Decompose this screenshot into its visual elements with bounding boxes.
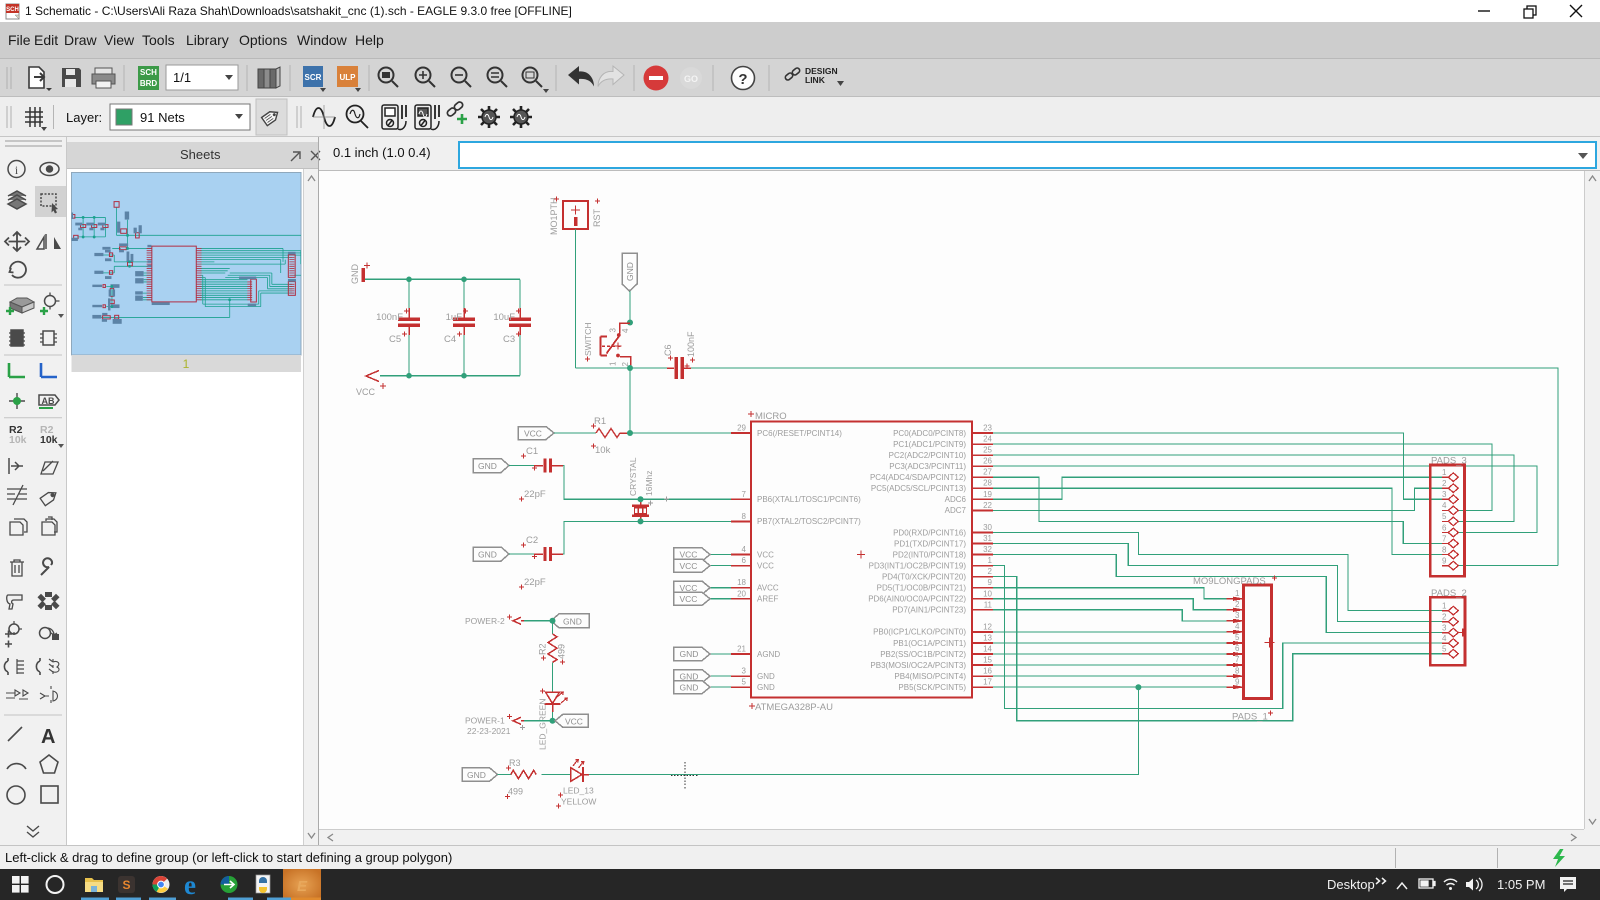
- svg-text:10: 10: [983, 589, 992, 598]
- net N$26 PC3 to PADS_3 pin6: [993, 466, 1537, 532]
- supply symbol VCC (cap bank): [356, 371, 386, 398]
- LED LED_GREEN: [538, 689, 568, 751]
- svg-text:R3: R3: [509, 758, 521, 768]
- net PB1 to M09 pin5: [993, 642, 1227, 644]
- svg-text:1/1: 1/1: [173, 70, 191, 85]
- net label VCC tag (POWER-1): [555, 714, 588, 727]
- PADS_3 pin 7: [1442, 534, 1458, 548]
- svg-text:R1: R1: [594, 416, 606, 427]
- svg-text:PD0(RXD/PCINT16): PD0(RXD/PCINT16): [893, 528, 966, 537]
- svg-text:6: 6: [1442, 523, 1447, 532]
- net label VCC tag (pin row 12): [674, 559, 732, 572]
- svg-text:1: 1: [1442, 601, 1447, 610]
- svg-text:VCC: VCC: [680, 583, 698, 593]
- svg-text:PD7(AIN1/PCINT23): PD7(AIN1/PCINT23): [892, 606, 966, 615]
- wire cap bank top rail: [365, 278, 520, 280]
- PADS_3 pin 9: [1442, 556, 1458, 569]
- svg-text:499: 499: [557, 644, 567, 659]
- net ADC7 to PADS_3 pin2: [993, 488, 1448, 510]
- svg-text:8: 8: [1235, 666, 1240, 675]
- junction crystal bottom: [638, 518, 644, 524]
- svg-text:32: 32: [983, 545, 992, 554]
- svg-text:Desktop: Desktop: [1327, 877, 1375, 892]
- svg-text:PD2(INT0/PCINT18): PD2(INT0/PCINT18): [893, 550, 967, 559]
- net label VCC tag (pin row 14): [674, 581, 732, 594]
- svg-text:C2: C2: [526, 535, 538, 546]
- M09 pin 2: [1227, 600, 1244, 612]
- net PD0 to PADS_2 pin1: [993, 533, 1448, 611]
- wire C2 to pin8: [563, 521, 731, 554]
- PADS_3 pin 4: [1442, 501, 1458, 515]
- connector PADS_2: [1430, 588, 1466, 665]
- net PD5 to M09 pin1: [993, 588, 1227, 599]
- net label GND tag (pin row 23): [674, 681, 732, 694]
- svg-text:8: 8: [742, 512, 747, 521]
- connector M09LONGPADS / PADS_1: [1193, 576, 1277, 723]
- svg-text:PB6(XTAL1/TOSC1/PCINT6): PB6(XTAL1/TOSC1/PCINT6): [757, 495, 861, 504]
- net PB2 to M09 pin6: [993, 653, 1227, 655]
- net N$28 PC5 to PADS_3 pin8: [993, 488, 1448, 554]
- wire GND junction down to R2: [552, 621, 554, 634]
- svg-text:S: S: [122, 878, 130, 892]
- svg-text:PB7(XTAL2/TOSC2/PCINT7): PB7(XTAL2/TOSC2/PCINT7): [757, 517, 861, 526]
- svg-text:4: 4: [742, 545, 747, 554]
- junction R1/RST: [627, 430, 633, 436]
- svg-text:3: 3: [1442, 490, 1447, 499]
- wire LED_13 long net to M09 pin9: [589, 687, 1138, 774]
- svg-text:7: 7: [1442, 534, 1447, 543]
- svg-text:POWER-2: POWER-2: [465, 616, 505, 626]
- svg-text:GND: GND: [563, 616, 582, 626]
- supply symbol GND (cap bank): [350, 263, 370, 285]
- svg-text:31: 31: [983, 534, 992, 543]
- svg-text:9: 9: [988, 578, 993, 587]
- svg-text:26: 26: [983, 457, 992, 466]
- net PD4 to PADS_2 pin5: [993, 577, 1448, 721]
- svg-text:5: 5: [1235, 633, 1240, 642]
- PADS_2 pin 2: [1442, 612, 1458, 625]
- svg-text:VCC: VCC: [356, 387, 376, 397]
- net N$25 PC2 to PADS_3 pin5: [993, 455, 1514, 521]
- resistor R2 499 (vertical): [538, 634, 567, 665]
- M09 pin 7: [1227, 655, 1244, 667]
- svg-text:20: 20: [737, 589, 746, 598]
- svg-text:VCC: VCC: [680, 550, 698, 560]
- net PD2 to PADS_2 pin3: [993, 555, 1448, 633]
- junction POWER-2/GND/R2: [550, 618, 556, 624]
- M09 pin 6: [1227, 644, 1244, 656]
- svg-text:LED_GREEN: LED_GREEN: [538, 699, 548, 751]
- svg-text:23: 23: [983, 424, 992, 433]
- wire POWER-2 to GND: [524, 620, 553, 622]
- junction RST / switch: [627, 365, 633, 371]
- svg-text:GND: GND: [467, 770, 486, 780]
- M09 pin 8: [1227, 666, 1244, 678]
- svg-text:PD1(TXD/PCINT17): PD1(TXD/PCINT17): [894, 539, 966, 548]
- svg-text:7: 7: [1235, 655, 1240, 664]
- svg-text:C3: C3: [503, 334, 515, 345]
- svg-text:LED_13: LED_13: [563, 786, 594, 796]
- net label GND tag (pin row 22): [674, 670, 732, 683]
- svg-text:GND: GND: [680, 649, 699, 659]
- wire POWER-1 to VCC junction: [524, 720, 553, 722]
- PADS_3 pin 2: [1442, 479, 1458, 493]
- svg-text:GND: GND: [478, 461, 497, 471]
- svg-text:9: 9: [1235, 677, 1240, 686]
- svg-text:25: 25: [983, 446, 992, 455]
- svg-text:12: 12: [983, 622, 992, 631]
- svg-text:1: 1: [988, 556, 993, 565]
- svg-text:ATMEGA328P-AU: ATMEGA328P-AU: [755, 702, 833, 713]
- svg-text:18: 18: [737, 578, 746, 587]
- svg-text:PB5(SCK/PCINT5): PB5(SCK/PCINT5): [898, 683, 966, 692]
- svg-text:10k: 10k: [595, 445, 611, 456]
- svg-text:POWER-1: POWER-1: [465, 716, 505, 726]
- svg-text:22pF: 22pF: [524, 489, 546, 500]
- capacitor C4 1uF: [444, 279, 475, 375]
- wire RST long to right edge loop: [690, 368, 1558, 566]
- resistor R1 10k: [591, 416, 630, 456]
- net N$27 PC4 to PADS_3 pin7: [993, 477, 1448, 543]
- mouse crosshair cursor: [671, 762, 699, 789]
- svg-text:10k: 10k: [9, 434, 27, 446]
- svg-text:6: 6: [742, 556, 747, 565]
- M09 pin 5: [1227, 633, 1244, 645]
- svg-text:PC2(ADC2/PCINT10): PC2(ADC2/PCINT10): [889, 451, 967, 460]
- M09 pin 1: [1227, 589, 1244, 601]
- svg-text:499: 499: [508, 787, 523, 797]
- svg-text:PD4(T0/XCK/PCINT20): PD4(T0/XCK/PCINT20): [882, 572, 966, 581]
- svg-text:2: 2: [1235, 600, 1240, 609]
- svg-text:5: 5: [1442, 512, 1447, 521]
- svg-text:7: 7: [742, 490, 747, 499]
- junction POWER-1/VCC: [550, 718, 556, 724]
- net ADC6 to PADS_3 pin1: [993, 477, 1448, 499]
- svg-text:3: 3: [1235, 611, 1240, 620]
- svg-text:6: 6: [1235, 644, 1240, 653]
- wire cap bank bottom rail: [380, 375, 520, 377]
- svg-text:17: 17: [983, 678, 992, 687]
- svg-text:VCC: VCC: [524, 429, 542, 439]
- crystal CRYSTAL 16Mhz: [628, 457, 669, 521]
- svg-text:1: 1: [1235, 589, 1240, 598]
- svg-text:13: 13: [983, 634, 992, 643]
- svg-text:GND: GND: [680, 682, 699, 692]
- net PD7 to M09 pin3: [993, 610, 1227, 621]
- junction dots cap bank: [406, 277, 467, 379]
- svg-text:C6: C6: [663, 344, 673, 356]
- svg-text:AGND: AGND: [757, 650, 780, 659]
- svg-text:PB0(ICP1/CLKO/PCINT0): PB0(ICP1/CLKO/PCINT0): [873, 628, 966, 637]
- PADS_3 pin 8: [1442, 545, 1458, 559]
- svg-text:GND: GND: [478, 550, 497, 560]
- M09 pin 3: [1227, 611, 1244, 623]
- svg-text:8: 8: [1442, 545, 1447, 554]
- svg-text:RST: RST: [592, 208, 602, 227]
- svg-text:5: 5: [1442, 645, 1447, 654]
- net label GND tag (C2): [473, 547, 509, 561]
- resistor R3 499: [505, 758, 536, 799]
- PADS_2 pin 5: [1442, 645, 1458, 659]
- svg-text:R2: R2: [538, 643, 548, 655]
- svg-text:91 Nets: 91 Nets: [140, 110, 185, 125]
- svg-text:A: A: [41, 726, 55, 748]
- net label GND tag (POWER-2): [551, 614, 589, 628]
- capacitor C2 22pF: [509, 535, 563, 590]
- svg-text:i: i: [15, 163, 19, 177]
- svg-text:4: 4: [621, 328, 630, 333]
- net label GND tag (pin row 20): [674, 647, 732, 660]
- connector PADS_3: [1430, 456, 1466, 577]
- net PB5 to M09 pin9: [993, 686, 1227, 688]
- svg-text:Layer:: Layer:: [66, 110, 102, 125]
- junction crystal top: [638, 496, 644, 502]
- svg-text:3: 3: [1442, 623, 1447, 632]
- wire RST horizontal to C6: [576, 367, 668, 369]
- svg-text:24: 24: [983, 435, 992, 444]
- capacitor C6 100nF: [663, 331, 696, 379]
- svg-text:PB4(MISO/PCINT4): PB4(MISO/PCINT4): [894, 672, 966, 681]
- svg-text:14: 14: [983, 645, 992, 654]
- svg-text:10uF: 10uF: [493, 312, 515, 323]
- wire GND tag to switch pin 4: [629, 291, 631, 323]
- svg-text:1: 1: [609, 361, 618, 366]
- svg-text:VCC: VCC: [565, 716, 583, 726]
- net PB0 to M09 pin4: [993, 631, 1227, 633]
- svg-text:SCH: SCH: [6, 7, 19, 13]
- wire GND to R3: [498, 774, 511, 776]
- LED LED_13 YELLOW: [556, 760, 596, 809]
- svg-text:VCC: VCC: [680, 561, 698, 571]
- svg-text:E: E: [297, 878, 308, 895]
- svg-text:MICRO: MICRO: [755, 411, 787, 422]
- svg-text:4: 4: [1442, 634, 1447, 643]
- svg-text:VCC: VCC: [680, 594, 698, 604]
- net label VCC tag (pin row 11): [674, 548, 732, 561]
- svg-text:YELLOW: YELLOW: [561, 797, 596, 807]
- wire RST down to R1 junction: [629, 368, 631, 433]
- switch SWITCH: [583, 322, 631, 367]
- IC U1 ATMEGA328P-AU box MICRO: [748, 411, 972, 713]
- svg-text:3: 3: [742, 667, 747, 676]
- net N$23 PC0 to PADS_3 pin3: [993, 433, 1448, 499]
- svg-text:C4: C4: [444, 334, 456, 345]
- svg-text:PC4(ADC4/SDA/PCINT12): PC4(ADC4/SDA/PCINT12): [870, 473, 966, 482]
- net label GND tag (C1): [473, 459, 509, 473]
- svg-text:2: 2: [1442, 612, 1447, 621]
- svg-text:PC5(ADC5/SCL/PCINT13): PC5(ADC5/SCL/PCINT13): [871, 484, 966, 493]
- net PB4 to M09 pin8: [993, 675, 1227, 677]
- svg-text:PD3(INT1/OC2B/PCINT19): PD3(INT1/OC2B/PCINT19): [869, 561, 967, 570]
- svg-text:100nF: 100nF: [376, 312, 403, 323]
- svg-text:PC3(ADC3/PCINT11): PC3(ADC3/PCINT11): [889, 462, 966, 471]
- svg-text:15: 15: [983, 656, 992, 665]
- svg-text:BRD: BRD: [140, 79, 158, 88]
- PADS_3 pin 3: [1442, 490, 1458, 503]
- svg-text:30: 30: [983, 523, 992, 532]
- net N$24 PC1 to PADS_3 pin4: [993, 444, 1492, 510]
- svg-text:22pF: 22pF: [524, 577, 546, 588]
- junction LED net / PB5: [1135, 684, 1141, 690]
- net PD1 to PADS_2 pin2: [993, 544, 1448, 622]
- pad POWER-1: [465, 714, 524, 726]
- svg-text:11: 11: [984, 600, 993, 609]
- net label VCC tag (R1): [518, 427, 554, 440]
- U1 left pin stubs and labels: [731, 424, 861, 692]
- svg-text:2: 2: [1442, 479, 1447, 488]
- svg-text:SCH: SCH: [140, 68, 157, 77]
- capacitor C5 100nF: [376, 279, 420, 375]
- net PD6 to M09 pin2: [993, 599, 1227, 610]
- text 22-23-2021: [467, 725, 525, 736]
- svg-text:GND: GND: [757, 672, 775, 681]
- U1 right pin stubs and labels: [868, 424, 993, 692]
- wire PADS_3 pin9 connect: [1459, 565, 1558, 567]
- svg-text:PD5(T1/OC0B/PCINT21): PD5(T1/OC0B/PCINT21): [877, 584, 967, 593]
- svg-text:PC1(ADC1/PCINT9): PC1(ADC1/PCINT9): [893, 440, 966, 449]
- svg-text:SCR: SCR: [305, 73, 322, 82]
- capacitor C3 10uF: [493, 279, 531, 375]
- svg-text:29: 29: [737, 424, 746, 433]
- net label GND tag (switch): [622, 253, 637, 291]
- svg-text:GND: GND: [625, 262, 635, 281]
- wire RST vertical from MO1PTH: [575, 229, 577, 368]
- wire VCC to R1: [554, 432, 596, 434]
- PADS_3 pin 5: [1442, 512, 1458, 526]
- svg-text:28: 28: [983, 479, 992, 488]
- svg-text:LINK: LINK: [805, 75, 826, 85]
- svg-text:9: 9: [1442, 556, 1447, 565]
- PADS_2 pin3 origin cross: [1459, 629, 1467, 637]
- svg-text:VCC: VCC: [757, 550, 774, 559]
- svg-text:27: 27: [983, 468, 992, 477]
- wire R1 to pin29: [630, 432, 731, 434]
- svg-text:PC0(ADC0/PCINT8): PC0(ADC0/PCINT8): [893, 429, 966, 438]
- svg-text:PB2(SS/OC1B/PCINT2): PB2(SS/OC1B/PCINT2): [880, 650, 966, 659]
- svg-text:PC6(/RESET/PCINT14): PC6(/RESET/PCINT14): [757, 429, 842, 438]
- PADS_2 pin 4: [1442, 634, 1458, 647]
- svg-text:GND: GND: [350, 264, 360, 285]
- svg-text:MO9LONGPADS: MO9LONGPADS: [1193, 576, 1266, 587]
- svg-text:1uF: 1uF: [446, 312, 463, 323]
- PADS_2 pin 1: [1442, 601, 1458, 614]
- svg-text:22-23-2021: 22-23-2021: [467, 726, 511, 736]
- svg-text:AB: AB: [42, 396, 55, 406]
- M09 pin 9: [1227, 677, 1244, 689]
- PADS_2 pin 3: [1442, 623, 1458, 636]
- svg-text:C1: C1: [526, 446, 538, 457]
- svg-text:AVCC: AVCC: [757, 584, 779, 593]
- svg-text:10k: 10k: [40, 434, 58, 446]
- svg-text:C5: C5: [389, 334, 401, 345]
- svg-text:100nF: 100nF: [686, 331, 696, 357]
- svg-text:ADC6: ADC6: [945, 495, 967, 504]
- PADS_3 pin 6: [1442, 523, 1458, 537]
- svg-text:e: e: [184, 870, 196, 900]
- svg-text:PB3(MOSI/OC2A/PCINT3): PB3(MOSI/OC2A/PCINT3): [870, 661, 966, 670]
- svg-text:5: 5: [742, 678, 747, 687]
- svg-text:VCC: VCC: [757, 561, 774, 570]
- pad POWER-2: [465, 615, 524, 627]
- svg-text:19: 19: [983, 490, 992, 499]
- capacitor C1 22pF: [509, 446, 563, 502]
- net label VCC tag (pin row 15): [674, 592, 732, 605]
- svg-text:SWITCH: SWITCH: [583, 322, 593, 356]
- net PB3 to M09 pin7: [993, 664, 1227, 666]
- svg-text:MO1PTH: MO1PTH: [549, 197, 559, 235]
- wire R3 to LED_13: [541, 774, 570, 776]
- svg-text:GND: GND: [757, 683, 775, 692]
- svg-text:CRYSTAL: CRYSTAL: [628, 457, 638, 496]
- svg-text:PADS_1: PADS_1: [1232, 712, 1268, 723]
- svg-text:GO: GO: [684, 74, 698, 84]
- wire C1 to pin7: [563, 466, 731, 500]
- svg-text:3: 3: [609, 328, 618, 333]
- svg-text:ULP: ULP: [340, 73, 357, 82]
- M09 pin 4: [1227, 622, 1244, 634]
- svg-text:PD6(AIN0/OC0A/PCINT22): PD6(AIN0/OC0A/PCINT22): [868, 595, 966, 604]
- svg-text:AREF: AREF: [757, 595, 778, 604]
- svg-text:1:05 PM: 1:05 PM: [1497, 877, 1545, 892]
- junction switch pin4: [627, 320, 633, 326]
- svg-text:16: 16: [983, 667, 992, 676]
- svg-text:21: 21: [737, 645, 746, 654]
- pad MO1PTH RST: [549, 197, 602, 236]
- svg-text:PB1(OC1A/PCINT1): PB1(OC1A/PCINT1): [893, 639, 966, 648]
- PADS_3 pin 1: [1442, 468, 1458, 482]
- wire LED to VCC junction: [552, 712, 554, 721]
- svg-text:4: 4: [1442, 501, 1447, 510]
- svg-text:1: 1: [183, 357, 190, 371]
- svg-text:ADC7: ADC7: [945, 506, 967, 515]
- svg-text:4: 4: [1235, 622, 1240, 631]
- svg-text:1: 1: [1442, 468, 1447, 477]
- svg-text:?: ?: [738, 71, 747, 88]
- svg-text:22: 22: [983, 501, 992, 510]
- svg-text:16Mhz: 16Mhz: [644, 470, 654, 496]
- net label GND tag (R3): [462, 768, 498, 782]
- svg-text:2: 2: [988, 567, 993, 576]
- wire R2 to LED_GREEN: [552, 662, 554, 692]
- net PD3 to PADS_2 pin4: [993, 566, 1448, 709]
